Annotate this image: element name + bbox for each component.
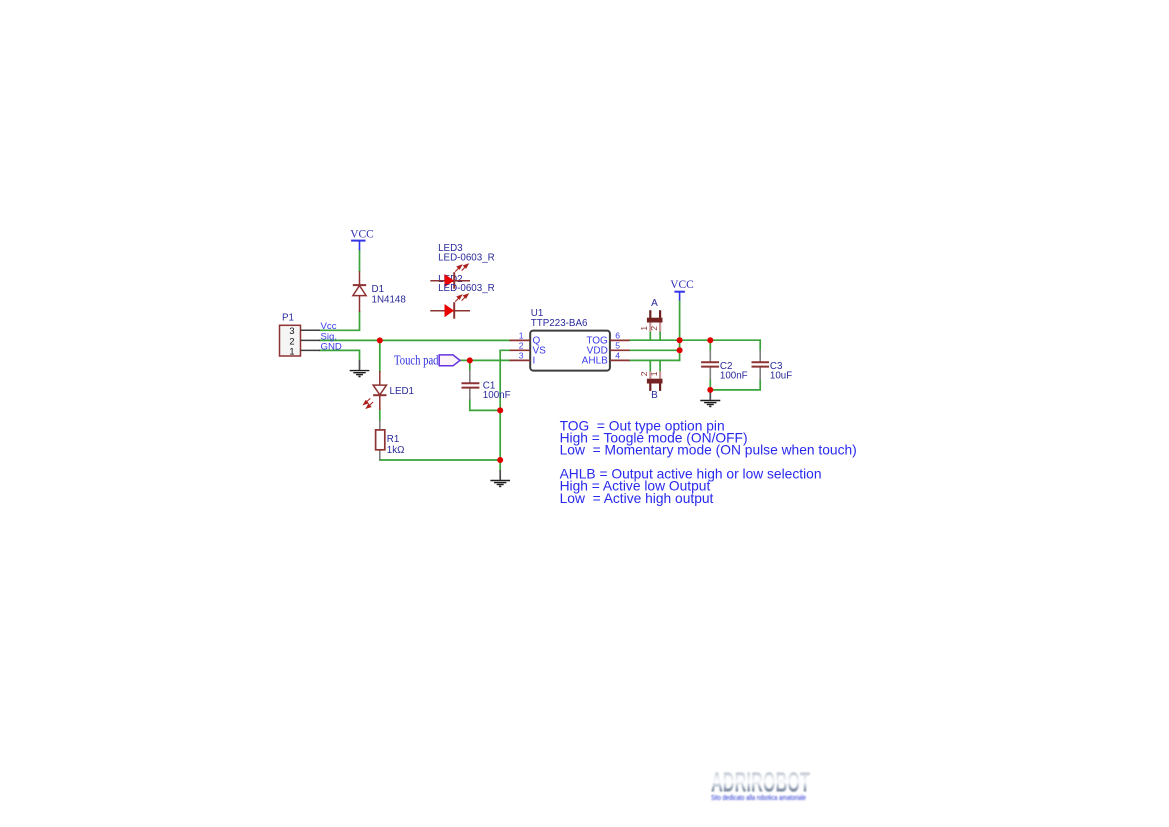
svg-text:100nF: 100nF	[483, 390, 511, 401]
svg-text:1: 1	[639, 326, 649, 331]
svg-text:2: 2	[289, 336, 294, 346]
svg-text:1: 1	[649, 371, 659, 376]
svg-text:LED1: LED1	[390, 386, 415, 397]
svg-text:1: 1	[289, 346, 294, 356]
svg-text:5: 5	[615, 341, 620, 351]
svg-text:2: 2	[519, 341, 524, 351]
svg-text:LED-0603_R: LED-0603_R	[438, 253, 495, 264]
svg-text:TTP223-BA6: TTP223-BA6	[531, 318, 588, 329]
svg-text:2: 2	[649, 326, 659, 331]
svg-text:GND: GND	[321, 341, 342, 352]
svg-text:B: B	[651, 390, 658, 401]
svg-text:2: 2	[639, 371, 649, 376]
svg-text:Touch pad: Touch pad	[394, 353, 439, 368]
svg-text:P1: P1	[282, 312, 294, 323]
svg-text:6: 6	[615, 331, 620, 341]
svg-text:AHLB: AHLB	[582, 355, 608, 366]
svg-text:1N4148: 1N4148	[372, 295, 407, 306]
svg-text:Sito dedicato alla robotica am: Sito dedicato alla robotica amatoriale	[711, 793, 806, 802]
svg-text:100nF: 100nF	[720, 371, 748, 382]
svg-text:VCC: VCC	[350, 228, 373, 240]
svg-text:R1: R1	[387, 434, 400, 445]
svg-text:1kΩ: 1kΩ	[387, 445, 405, 456]
svg-text:1: 1	[519, 331, 524, 341]
svg-text:3: 3	[289, 326, 294, 336]
svg-text:Low = Momentary mode (ON puls: Low = Momentary mode (ON pulse when touc…	[560, 443, 857, 458]
svg-text:3: 3	[519, 351, 524, 361]
svg-text:A: A	[651, 298, 658, 309]
svg-text:LED-0603_R: LED-0603_R	[438, 283, 495, 294]
svg-text:10uF: 10uF	[770, 371, 792, 382]
svg-text:Low = Active high output: Low = Active high output	[560, 491, 714, 506]
svg-text:4: 4	[615, 351, 620, 361]
svg-text:VCC: VCC	[670, 279, 693, 291]
svg-text:I: I	[533, 355, 536, 366]
